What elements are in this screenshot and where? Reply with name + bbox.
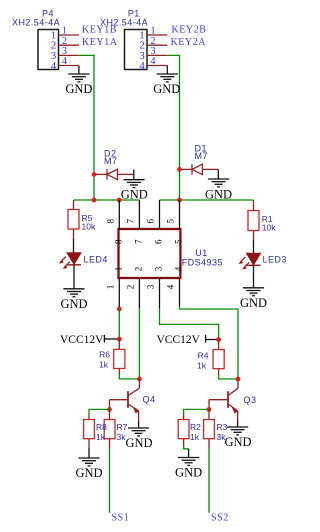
U1 pin 6 (146, 200, 164, 244)
svg-text:1: 1 (114, 267, 124, 272)
op-amp U1 FDS4935 box (119, 229, 223, 278)
resistor R4 (197, 340, 224, 375)
svg-text:5: 5 (174, 239, 184, 244)
ground P4 (65, 66, 92, 97)
wire R6 to Q4 collector (119, 374, 139, 379)
svg-text:KEY2A: KEY2A (171, 37, 207, 48)
svg-text:4: 4 (139, 60, 145, 72)
svg-text:4: 4 (151, 56, 156, 67)
svg-text:R7: R7 (117, 422, 128, 432)
svg-text:SS1: SS1 (112, 512, 130, 523)
wire pin1 to VCC node (118, 309, 120, 339)
svg-text:1k: 1k (99, 359, 109, 369)
junction pin1 end (117, 307, 122, 312)
ground LED3 (240, 288, 267, 310)
ground P1 (153, 66, 180, 97)
svg-text:1k: 1k (197, 360, 207, 370)
wire R2 jog to gnd (184, 447, 189, 449)
svg-text:3k: 3k (117, 432, 127, 442)
connector P4 (12, 8, 60, 72)
svg-text:3k: 3k (217, 432, 227, 442)
svg-text:LED4: LED4 (84, 254, 108, 264)
svg-text:GND: GND (60, 297, 87, 311)
junction D2 node (92, 172, 97, 177)
svg-text:FDS4935: FDS4935 (182, 257, 223, 267)
diode D1 (180, 143, 219, 174)
svg-text:VCC12V: VCC12V (60, 334, 104, 346)
ground Q4 (125, 421, 152, 450)
junction bus-pin5 (177, 198, 182, 203)
P4 pin 2 (59, 36, 79, 47)
transistor Q3 (209, 379, 256, 421)
U1 pin 3 (146, 266, 164, 309)
svg-text:6: 6 (146, 219, 156, 224)
svg-text:1: 1 (106, 285, 116, 290)
P4 pin 4 (59, 56, 79, 67)
transistor Q4 (110, 379, 156, 421)
wire left bus (74, 199, 140, 201)
junction VCC right (216, 337, 221, 342)
junction D1 node (177, 167, 182, 172)
svg-text:7: 7 (134, 239, 144, 244)
U1 pin 5 (166, 200, 184, 244)
resistor R6 (99, 339, 125, 374)
svg-text:8: 8 (114, 239, 124, 244)
svg-text:6: 6 (154, 239, 164, 244)
wire LED3 to gnd (253, 265, 255, 288)
wire P1.3 to node (167, 55, 179, 200)
resistor R7 (104, 409, 127, 448)
junction Q3 collector (236, 377, 241, 382)
svg-text:M7: M7 (104, 156, 117, 166)
resistor R8 (84, 415, 95, 449)
U1 pin 8 (106, 200, 124, 244)
svg-text:KEY1A: KEY1A (82, 37, 118, 48)
svg-text:KEY2B: KEY2B (172, 25, 207, 36)
resistor R5 (68, 200, 96, 238)
P1 pin 2 (147, 36, 167, 47)
svg-text:4: 4 (166, 284, 176, 289)
svg-text:2: 2 (126, 285, 136, 290)
svg-text:GND: GND (175, 466, 202, 480)
U1 pin 4 (166, 266, 184, 306)
wire pin4 to Q3 collector (180, 306, 239, 379)
wire base node to R8 (89, 409, 110, 414)
wire P4.3 to node (79, 55, 94, 200)
wire R5 to LED4 (73, 238, 75, 253)
svg-text:XH2.54-4A: XH2.54-4A (100, 17, 148, 27)
svg-text:1k: 1k (96, 432, 106, 442)
resistor R3 (204, 409, 228, 448)
ground R2 (175, 449, 202, 480)
wire R1 to LED3 (253, 239, 255, 253)
svg-text:GND: GND (224, 435, 251, 449)
svg-text:7: 7 (126, 219, 136, 224)
junction VCC left (117, 337, 122, 342)
svg-text:GND: GND (75, 466, 102, 480)
wire R8 to gnd (88, 448, 90, 458)
wire right bus (160, 199, 254, 201)
svg-text:3: 3 (146, 284, 156, 289)
svg-text:2: 2 (134, 267, 144, 272)
svg-text:GND: GND (153, 82, 180, 96)
junction Q4 collector (137, 377, 142, 382)
svg-text:GND: GND (240, 296, 267, 310)
U1 pin 7 (126, 200, 144, 244)
wire base node to R2 (184, 409, 209, 414)
svg-text:4: 4 (51, 60, 57, 72)
ground D2 (121, 170, 148, 202)
wire LED4 to gnd (73, 265, 75, 289)
svg-text:10k: 10k (262, 222, 276, 232)
P1 pin 4 (147, 56, 167, 67)
junction Q3 base node (207, 407, 212, 412)
svg-text:Q4: Q4 (143, 395, 156, 405)
svg-text:SS2: SS2 (211, 512, 229, 523)
svg-text:Q3: Q3 (244, 395, 257, 405)
svg-text:R2: R2 (190, 422, 201, 432)
ground LED4 (60, 289, 87, 311)
junction bus-D2 (92, 198, 97, 203)
ground Q3 (224, 421, 251, 450)
svg-text:LED3: LED3 (263, 254, 287, 264)
svg-text:4: 4 (62, 56, 67, 67)
svg-text:VCC12V: VCC12V (157, 334, 201, 346)
svg-text:U1: U1 (195, 248, 207, 258)
svg-text:3: 3 (154, 266, 164, 271)
U1 pin 2 (126, 267, 144, 309)
P4 pin 1 (59, 26, 79, 37)
P1 pin 1 (147, 26, 167, 37)
svg-text:XH2.54-4A: XH2.54-4A (12, 17, 60, 27)
wire R7 to SS1 (109, 449, 111, 513)
svg-text:4: 4 (174, 266, 184, 271)
svg-text:M7: M7 (195, 151, 208, 161)
diode D2 (94, 148, 134, 179)
wire pin2 to Q4 collector (138, 309, 140, 379)
power VCC12V right (157, 334, 219, 346)
U1 pin 1 (106, 267, 124, 309)
LED LED4 (59, 253, 108, 269)
wire R3 to SS2 (208, 449, 210, 513)
power VCC12V left (60, 334, 119, 346)
svg-text:5: 5 (166, 219, 176, 224)
svg-text:R6: R6 (99, 350, 110, 360)
wire pin3 to VCC node right (160, 309, 219, 340)
P4 pin 3 (59, 46, 79, 57)
svg-text:8: 8 (106, 219, 116, 224)
svg-text:GND: GND (125, 436, 152, 450)
LED LED3 (238, 253, 287, 269)
ground R8 (75, 458, 102, 480)
ground D1 (205, 169, 232, 201)
svg-text:R4: R4 (198, 350, 209, 360)
connector P1 (100, 8, 148, 72)
svg-text:R3: R3 (217, 422, 228, 432)
wire R4 to Q3 collector (219, 374, 238, 379)
svg-text:1k: 1k (190, 432, 200, 442)
svg-text:GND: GND (65, 82, 92, 96)
P1 pin 3 (147, 46, 167, 57)
junction Q4 base node (107, 407, 112, 412)
svg-text:R8: R8 (96, 422, 107, 432)
svg-text:10k: 10k (82, 221, 96, 231)
junction bus-pin8 (117, 198, 122, 203)
resistor R2 (178, 415, 201, 449)
resistor R1 (248, 200, 276, 239)
